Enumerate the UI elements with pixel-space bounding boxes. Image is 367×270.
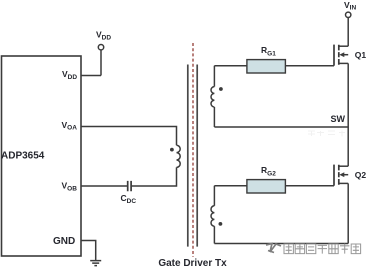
transistor Q1 gate bar	[333, 45, 335, 66]
secondary winding 2 of T1	[211, 206, 214, 226]
svg-text:Q1: Q1	[355, 50, 367, 60]
ghost watermark under SW	[308, 131, 345, 137]
transistor Q2 drain stub	[339, 165, 348, 167]
transistor Q2 body arrow	[344, 174, 349, 176]
node SW wire	[214, 126, 348, 128]
polarity dot secondary 1	[219, 87, 223, 91]
wire SW to Q2 drain	[347, 127, 349, 166]
wire VOA to primary top	[81, 127, 177, 146]
isolation barrier dashed line	[192, 43, 194, 257]
wire GND pin	[81, 241, 96, 261]
wire secondary 1 bottom to SW	[213, 107, 215, 127]
transistor Q2 source stub	[339, 182, 348, 184]
capacitor CDC plates	[128, 181, 131, 191]
svg-text:Gate Driver Tx: Gate Driver Tx	[158, 258, 227, 269]
ic U1 ADP3654 box	[2, 56, 82, 256]
primary winding of T1	[177, 145, 181, 167]
watermark text (pseudo CJK glyphs)	[284, 244, 361, 254]
wire secondary 1 to RG1	[214, 65, 247, 67]
svg-text:ADP3654: ADP3654	[1, 150, 45, 161]
resistor RG2	[247, 180, 286, 193]
svg-text:SW: SW	[331, 114, 346, 124]
secondary winding 1 of T1	[211, 87, 214, 107]
supply VIN terminal circle	[346, 12, 351, 17]
supply VDD terminal circle	[98, 45, 103, 50]
wire secondary 2 bottom	[213, 226, 215, 243]
transistor Q1 source stub	[339, 62, 348, 64]
wire VIN to Q1 drain	[347, 18, 349, 47]
transistor Q2 channel segments	[338, 165, 340, 185]
polarity dot primary	[170, 148, 174, 152]
wire secondary 2 to RG2	[214, 185, 247, 187]
wire Q1 source to SW	[347, 63, 349, 127]
transformer T1 core lines	[188, 65, 197, 247]
svg-text:Q2: Q2	[355, 170, 367, 180]
wire VDD stem	[100, 50, 102, 76]
polarity dot secondary 2	[219, 222, 223, 226]
wire bottom rail	[214, 243, 348, 245]
wire VOB pin to capacitor	[81, 185, 128, 187]
wire VDD pin to supply	[81, 75, 101, 77]
transistor Q2 gate bar	[333, 165, 335, 186]
secondary winding 1 top stub	[213, 66, 215, 87]
wire RG2 to Q2 gate	[285, 185, 334, 187]
resistor RG1	[247, 60, 286, 73]
ground symbol	[90, 261, 101, 266]
wire Q2 source to bottom rail	[347, 183, 349, 243]
watermark logo	[266, 244, 281, 253]
transistor Q1 channel segments	[338, 45, 340, 65]
transistor Q1 body arrow	[344, 54, 349, 56]
wire secondary 2 top stub	[213, 186, 215, 206]
transistor Q1 drain stub	[339, 45, 348, 47]
wire primary bottom to VOB net	[131, 167, 176, 186]
svg-text:GND: GND	[53, 236, 75, 247]
wire RG1 to Q1 gate	[285, 65, 334, 67]
